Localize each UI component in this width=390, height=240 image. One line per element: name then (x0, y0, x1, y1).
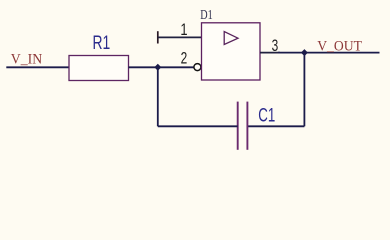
wire bottom right to C1 (247, 125, 304, 127)
op-amp D1 body (202, 23, 261, 80)
op-amp D1 triangle (224, 32, 238, 45)
svg-text:V_OUT: V_OUT (317, 38, 362, 55)
pin 3 wire (260, 52, 280, 54)
svg-text:C1: C1 (258, 105, 275, 126)
svg-text:2: 2 (181, 50, 188, 69)
junction B (301, 49, 308, 56)
inversion bubble pin 2 (194, 64, 201, 71)
wire junction B down (303, 53, 305, 127)
junction A (154, 64, 161, 71)
wire pin 3 to junction B (278, 52, 304, 54)
svg-text:3: 3 (272, 37, 279, 56)
wire R1 to junction A and pin 2 (129, 66, 194, 68)
capacitor C1 left plate (237, 102, 239, 150)
pin 1 wire (158, 36, 202, 38)
wire junction B to V_OUT (304, 52, 379, 54)
svg-text:1: 1 (180, 21, 187, 40)
svg-text:D1: D1 (200, 6, 212, 22)
wire C1 to bottom left corner (158, 125, 238, 127)
resistor R1 (69, 56, 129, 81)
wire junction A down (157, 67, 159, 126)
capacitor C1 right plate (246, 102, 248, 150)
wire V_IN to R1 (6, 66, 69, 68)
svg-text:R1: R1 (93, 32, 111, 54)
svg-text:V_IN: V_IN (11, 51, 43, 68)
pin 1 end tick (157, 31, 159, 43)
